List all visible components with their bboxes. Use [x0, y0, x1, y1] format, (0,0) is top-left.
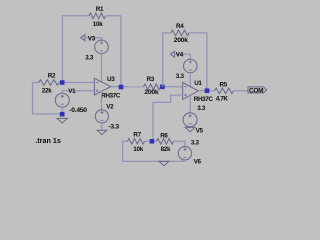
wire V3 top — [85, 38, 102, 41]
wire R7 row left bend — [123, 141, 128, 161]
op-amp U3 RH37C — [94, 78, 110, 95]
svg-text:10k: 10k — [133, 146, 143, 153]
svg-text:R1: R1 — [96, 6, 104, 13]
wire V1 minus down — [61, 107, 63, 114]
wire U3 output — [111, 86, 144, 88]
wire V6 minus to rail — [184, 160, 186, 161]
svg-text:V3: V3 — [88, 35, 96, 42]
resistor R3 200k — [144, 84, 161, 90]
voltage source V3 3.3 — [95, 40, 109, 54]
node junction U3 out — [119, 85, 124, 90]
ground under V1 — [57, 118, 67, 123]
svg-text:3.3: 3.3 — [176, 73, 185, 80]
wire U1 output — [198, 90, 214, 92]
svg-text:22k: 22k — [42, 87, 52, 94]
svg-text:R7: R7 — [133, 131, 141, 138]
resistor R1 — [89, 13, 106, 19]
svg-text:U1: U1 — [194, 80, 202, 87]
net flag COM — [248, 87, 267, 93]
resistor R5 4.7K — [215, 88, 234, 94]
voltage source V4 3.3 — [184, 59, 198, 73]
voltage source V5 3.3 — [183, 113, 197, 127]
svg-text:82k: 82k — [161, 146, 171, 153]
svg-text:R3: R3 — [147, 76, 155, 83]
wire R7 to R6 — [145, 140, 157, 142]
voltage source V2 -3.3 — [95, 110, 108, 123]
ground on bottom rail — [159, 161, 169, 165]
ground under V2 — [97, 130, 107, 134]
svg-text:R2: R2 — [48, 72, 56, 79]
wire R1 feedback top rail — [62, 16, 121, 87]
wire U3 V- to V2 — [101, 91, 103, 110]
svg-text:RH37C: RH37C — [194, 96, 214, 103]
svg-text:V4: V4 — [176, 51, 184, 58]
node junction R2/R1/U3- — [60, 80, 65, 85]
svg-text:V5: V5 — [196, 127, 204, 134]
svg-text:-0.450: -0.450 — [69, 107, 87, 114]
wire bottom ground rail — [123, 160, 185, 162]
svg-text:RH37C: RH37C — [101, 92, 121, 99]
svg-text:3.3: 3.3 — [197, 105, 206, 112]
svg-text:R4: R4 — [176, 23, 184, 30]
wire R4 feedback rail — [163, 33, 207, 91]
svg-text:.tran 1s: .tran 1s — [35, 136, 61, 145]
wire left rail to ground — [33, 83, 63, 114]
wire V2 minus down — [101, 123, 103, 131]
op-amp U1 RH37C — [183, 83, 199, 100]
svg-text:R5: R5 — [220, 82, 228, 89]
resistor R6 82k — [157, 139, 174, 145]
ground flag for V4 — [170, 51, 174, 57]
resistor R7 10k — [128, 139, 145, 145]
resistor R4 200k — [171, 30, 189, 36]
svg-text:U3: U3 — [107, 76, 115, 83]
wire V4 top — [174, 54, 190, 59]
node junction V1/gnd — [60, 112, 65, 117]
svg-text:3.3: 3.3 — [191, 140, 200, 147]
wire R5 to COM — [234, 90, 249, 92]
node junction U1 out — [205, 88, 210, 93]
voltage source V6 3.3 — [178, 147, 191, 160]
svg-text:4.7K: 4.7K — [216, 96, 229, 103]
ground flag for V3 — [81, 35, 85, 41]
svg-text:-3.3: -3.3 — [108, 123, 119, 130]
svg-text:200k: 200k — [144, 89, 158, 96]
svg-text:200k: 200k — [174, 37, 188, 44]
wire R6 to V6 — [174, 141, 185, 146]
node junction R3/R4 — [160, 85, 165, 90]
wire V1 plus to U3+ — [62, 91, 94, 94]
svg-text:V2: V2 — [106, 104, 114, 111]
wire R3 to U1- — [161, 86, 183, 88]
svg-text:10k: 10k — [93, 21, 103, 28]
voltage source V1 -0.450 — [55, 93, 69, 107]
svg-text:COM: COM — [249, 87, 263, 94]
wire V4 to U1 V+ — [189, 72, 191, 86]
svg-text:V6: V6 — [194, 159, 202, 166]
svg-text:R6: R6 — [160, 132, 168, 139]
wire U1 V- to V5 — [189, 95, 191, 113]
svg-text:V1: V1 — [68, 88, 76, 95]
ground under V5 — [185, 127, 195, 131]
resistor R2 — [39, 80, 59, 86]
node junction R7/R6 — [150, 139, 155, 144]
wire R2 input row — [33, 82, 95, 84]
svg-text:3.3: 3.3 — [85, 54, 94, 61]
wire V3 to U3 V+ — [101, 53, 103, 82]
wire U1+ staircase — [153, 95, 183, 141]
